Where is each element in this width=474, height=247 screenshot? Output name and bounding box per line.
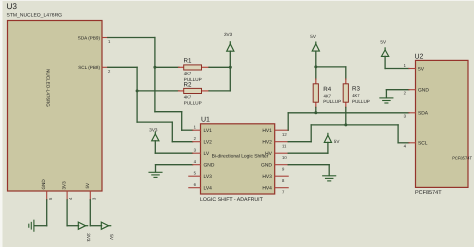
svg-text:3V3: 3V3 xyxy=(86,233,91,242)
MCU U3 body xyxy=(8,21,103,192)
svg-text:SCL: SCL xyxy=(418,141,428,147)
junction R3 / SCL net xyxy=(344,123,347,126)
power 3V3 (near U1 pin3) xyxy=(149,128,159,141)
svg-text:5V: 5V xyxy=(380,40,387,45)
svg-text:HV2: HV2 xyxy=(262,140,272,146)
svg-text:LV2: LV2 xyxy=(204,140,213,146)
wire SDA horizontal from U3 pin1 xyxy=(108,37,155,39)
U3 bottom pin 5 stub xyxy=(46,191,48,200)
left white margin strip xyxy=(0,0,3,247)
wire SCL net into U2 pin 4 xyxy=(398,142,409,144)
top white margin strip xyxy=(0,0,474,1)
svg-text:LV3: LV3 xyxy=(204,174,213,180)
resistor R3 xyxy=(343,79,348,107)
wire R4 bottom to SDA net xyxy=(315,107,317,112)
svg-text:5V: 5V xyxy=(418,66,425,72)
U1 pin 9 stub xyxy=(275,164,289,166)
wire U3 5V pin down xyxy=(89,200,91,226)
svg-text:5V: 5V xyxy=(109,234,114,241)
ground (left of U3 bottom, rotated) xyxy=(29,220,34,231)
junction 5V rail / R3 branch xyxy=(314,65,317,68)
wire branch to R3 top xyxy=(316,66,346,68)
svg-text:R1: R1 xyxy=(184,57,192,64)
svg-text:HV1: HV1 xyxy=(262,128,272,134)
junction R1 / 3V3 rail xyxy=(229,66,232,69)
wire SDA vertical to LV1 xyxy=(181,112,183,131)
wire 3V3 to U1 pin 3 stem xyxy=(154,141,156,153)
IO expander U2 body xyxy=(416,60,469,187)
svg-text:U3: U3 xyxy=(7,2,18,11)
U1 pin 11 stub xyxy=(275,141,289,143)
wire GND stem down xyxy=(385,90,387,98)
svg-text:12: 12 xyxy=(282,132,287,137)
svg-text:4K7: 4K7 xyxy=(184,94,192,99)
svg-text:11: 11 xyxy=(282,143,287,148)
wire R1 right to 3V3 rail xyxy=(209,66,230,68)
svg-text:SCL (PB8): SCL (PB8) xyxy=(78,65,100,70)
U1 pin 4 stub xyxy=(193,164,201,166)
power 3V3 (top) xyxy=(224,32,234,51)
U2 pin 2 stub xyxy=(409,89,416,91)
U1 pin 10 stub xyxy=(275,152,289,154)
junction SDA / R1 xyxy=(153,66,156,69)
U2 pin 4 stub xyxy=(409,142,416,144)
svg-text:5V: 5V xyxy=(85,182,90,189)
wire R2 right xyxy=(209,90,230,92)
wire U1 pin 9 GND right xyxy=(288,164,329,166)
svg-text:PULLUP: PULLUP xyxy=(352,99,370,104)
wire GND left run xyxy=(34,225,46,227)
ground (below U1 pin 9) xyxy=(323,176,336,181)
wire U3 3V3 pin down xyxy=(66,200,68,226)
wire GND stem xyxy=(155,165,157,172)
junction SCL / R2 xyxy=(136,89,139,92)
wire 5V stem to U2 pin1 row xyxy=(384,56,386,68)
U3 pin 2 stub xyxy=(102,66,108,68)
wire SCL 5V net horizontal xyxy=(311,124,398,126)
power 5V (above R4) xyxy=(310,34,319,51)
power 5V (near U1 pin10) xyxy=(324,133,340,144)
wire SCL horizontal jog xyxy=(137,121,172,123)
svg-text:R2: R2 xyxy=(184,82,192,89)
U1 pin 12 stub xyxy=(275,129,289,131)
U1 pin 8 stub xyxy=(275,175,289,177)
svg-text:LV1: LV1 xyxy=(204,128,213,134)
wire SDA 5V net to U2 pin 3 xyxy=(288,112,409,114)
resistor R2 xyxy=(179,88,210,93)
junction R4 / SDA net xyxy=(314,111,317,114)
svg-text:PULLUP: PULLUP xyxy=(184,100,202,105)
svg-text:Bi-directional Logic Shifter: Bi-directional Logic Shifter xyxy=(212,154,269,160)
svg-text:GND: GND xyxy=(204,163,215,169)
wire SCL vertical drop xyxy=(136,67,138,122)
wire 3V3 to U1 pin 3 xyxy=(155,152,192,154)
wire SCL vertical to LV2 xyxy=(171,122,173,142)
U1 pin 3 stub xyxy=(193,152,201,154)
U1 pin 7 stub xyxy=(275,187,289,189)
svg-text:4K7: 4K7 xyxy=(352,93,360,98)
svg-text:U1: U1 xyxy=(201,116,210,123)
svg-text:R4: R4 xyxy=(323,86,331,93)
svg-text:PULLUP: PULLUP xyxy=(323,99,341,104)
resistor R1 xyxy=(179,65,210,70)
U3 pin 1 stub xyxy=(102,37,108,39)
U1 pin 1 stub xyxy=(193,129,201,131)
svg-text:LOGIC SHIFT - ADAFRUIT: LOGIC SHIFT - ADAFRUIT xyxy=(200,197,264,203)
wire 5V stem near U1 xyxy=(327,142,329,153)
svg-text:5V: 5V xyxy=(310,34,317,39)
svg-text:3V3: 3V3 xyxy=(149,128,158,133)
wire SDA vertical drop xyxy=(154,38,156,112)
wire HV2 rail up xyxy=(310,125,312,142)
svg-text:10: 10 xyxy=(282,155,287,160)
ground (below U2 pin 2) xyxy=(380,98,393,103)
svg-text:PCF8574T: PCF8574T xyxy=(452,155,472,160)
wire 3V3 rail vertical xyxy=(229,51,231,91)
U2 pin 1 stub xyxy=(409,68,416,70)
svg-text:HV3: HV3 xyxy=(262,174,272,180)
svg-text:LV: LV xyxy=(204,151,210,157)
wire SCL into U1 pin 2 xyxy=(172,141,192,143)
power 3V3 (bottom, rotated right) xyxy=(78,222,91,242)
U1 pin 2 stub xyxy=(193,141,201,143)
U2 pin 3 stub xyxy=(409,112,416,114)
svg-text:R3: R3 xyxy=(352,86,360,93)
svg-text:3V3: 3V3 xyxy=(224,32,233,37)
svg-text:STM_NUCLEO_L476RG: STM_NUCLEO_L476RG xyxy=(7,13,63,19)
svg-text:HV4: HV4 xyxy=(262,186,272,192)
svg-text:SDA: SDA xyxy=(418,111,429,117)
wire R2 left xyxy=(137,90,179,92)
wire SDA into U1 pin 1 xyxy=(182,129,193,131)
wire U2 pin 2 GND left xyxy=(386,89,409,91)
wire HV2 right xyxy=(288,141,311,143)
resistor R4 xyxy=(313,79,318,107)
power 5V (bottom, rotated right) xyxy=(101,222,114,241)
wire 5V rail down to junction xyxy=(315,51,317,79)
svg-text:GND: GND xyxy=(418,88,429,94)
ground (below U1 pin 4) xyxy=(149,172,162,177)
wire 3V3 right run xyxy=(67,225,79,227)
svg-text:GND: GND xyxy=(41,179,46,190)
svg-text:4K7: 4K7 xyxy=(324,93,332,98)
wire U1 pin 4 GND xyxy=(156,164,193,166)
wire SDA horizontal jog xyxy=(155,111,182,113)
logic level shifter U1 body xyxy=(201,124,275,194)
wire GND stem down xyxy=(328,165,330,176)
svg-text:5V: 5V xyxy=(334,139,341,144)
wire U3 GND pin down xyxy=(46,200,48,226)
svg-text:4K7: 4K7 xyxy=(184,71,192,76)
svg-text:SDA (PB9): SDA (PB9) xyxy=(78,35,101,40)
svg-text:PCF8574T: PCF8574T xyxy=(415,190,442,196)
wire R3 top drop xyxy=(345,67,347,79)
power 5V (for U2 pin1) xyxy=(380,40,388,57)
wire HV right to 5V xyxy=(288,152,328,154)
svg-text:LV4: LV4 xyxy=(204,186,213,192)
U3 bottom pin 4 stub xyxy=(66,191,68,200)
U1 pin 6 stub xyxy=(189,187,201,189)
wire into U2 pin 1 xyxy=(385,68,409,70)
wire R3 bottom to SCL net xyxy=(345,107,347,125)
U3 bottom pin 3 stub xyxy=(89,191,91,200)
wire HV1 rail up xyxy=(287,113,289,130)
U1 pin 5 stub xyxy=(189,175,201,177)
wire 5V right run xyxy=(90,225,101,227)
svg-text:GND: GND xyxy=(261,163,272,169)
svg-text:U2: U2 xyxy=(415,54,424,61)
wire SCL net down to U2 pin4 row xyxy=(397,125,399,143)
svg-text:HV: HV xyxy=(265,151,273,157)
svg-text:3V3: 3V3 xyxy=(62,181,67,190)
svg-text:NUCLEO-L476RG: NUCLEO-L476RG xyxy=(46,69,51,107)
wire SCL horizontal from U3 pin2 xyxy=(108,66,137,68)
wire R1 left xyxy=(155,66,179,68)
